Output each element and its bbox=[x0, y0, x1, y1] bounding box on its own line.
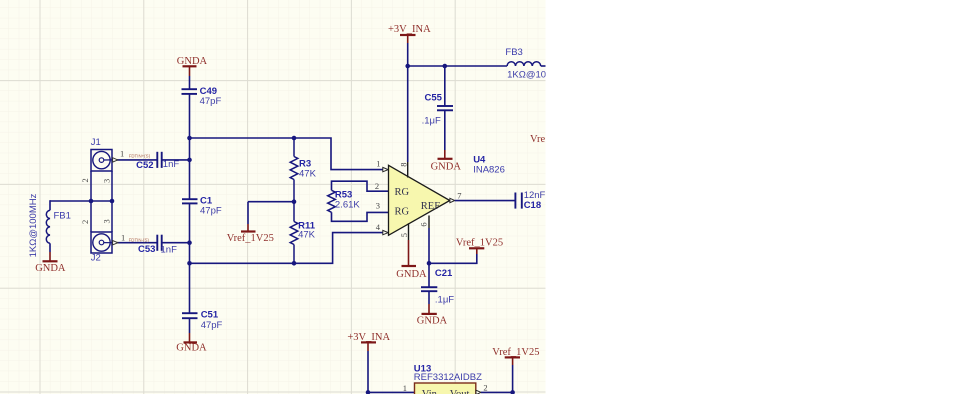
svg-text:FB1: FB1 bbox=[54, 210, 71, 221]
wire C55 to GNDA bbox=[444, 110, 446, 150]
svg-text:GNDA: GNDA bbox=[35, 263, 66, 274]
svg-text:3: 3 bbox=[101, 219, 111, 223]
wire shield rail bbox=[50, 200, 112, 202]
capacitor C52 1nF bbox=[136, 152, 179, 171]
input designator arrow pin4 bbox=[383, 230, 388, 234]
power port GNDA (below C21) bbox=[417, 304, 448, 326]
input designator arrow pin1 bbox=[383, 167, 388, 171]
junction (189.5,159.9) bbox=[187, 158, 192, 163]
wire +3V to U13 pin1 bbox=[368, 351, 415, 392]
pin-1 input designator arrow J2 bbox=[113, 241, 118, 245]
power port +3V_INA (top) bbox=[388, 24, 431, 43]
capacitor C53 1nF bbox=[138, 235, 177, 256]
svg-text:2: 2 bbox=[375, 181, 379, 191]
J2 pin1 wire to C53 bbox=[112, 242, 157, 244]
sheet background bbox=[0, 0, 546, 394]
capacitor C1 47pF bbox=[182, 196, 222, 217]
svg-text:47pF: 47pF bbox=[200, 205, 222, 216]
svg-text:FDTIN-(S): FDTIN-(S) bbox=[129, 238, 150, 243]
capacitor C49 47pF bbox=[182, 86, 222, 107]
capacitor C18 12nF bbox=[515, 190, 545, 211]
wire C51 to GNDA bbox=[189, 318, 191, 333]
svg-text:1: 1 bbox=[121, 233, 125, 243]
svg-text:6: 6 bbox=[419, 222, 429, 226]
svg-text:3: 3 bbox=[101, 179, 111, 183]
wire bus C49 to C1 bbox=[189, 94, 191, 199]
svg-text:GNDA: GNDA bbox=[417, 315, 448, 326]
junction (189.5,242.7) bbox=[187, 240, 192, 245]
wire up to Vref port bbox=[512, 365, 514, 392]
wire down to Vref port bbox=[247, 202, 249, 224]
wire FB1 to GNDA bbox=[49, 243, 51, 252]
svg-text:C55: C55 bbox=[425, 93, 443, 104]
wire GNDA to C49 bbox=[189, 76, 191, 89]
svg-text:47pF: 47pF bbox=[200, 96, 222, 107]
svg-text:J2: J2 bbox=[91, 252, 101, 263]
junction (294,201.7) bbox=[292, 199, 297, 204]
power port GNDA (below pin5) bbox=[396, 240, 427, 280]
svg-text:C51: C51 bbox=[201, 310, 219, 321]
junction (429,263.3) bbox=[427, 261, 432, 266]
svg-text:1nF: 1nF bbox=[163, 159, 180, 170]
regulator U13 REF3312AIDBZ bbox=[414, 363, 482, 394]
wire bottom net to op-amp pin4 bbox=[190, 233, 383, 264]
junction (189.5,138) bbox=[187, 136, 192, 141]
svg-text:.1μF: .1μF bbox=[422, 115, 441, 126]
junction (91,201) bbox=[89, 199, 94, 204]
svg-text:RG: RG bbox=[395, 206, 410, 217]
wire rail to FB1 bbox=[49, 200, 51, 210]
power port +3V_INA (bottom) bbox=[347, 332, 390, 351]
capacitor C55 .1uF bbox=[422, 66, 453, 126]
svg-text:3: 3 bbox=[376, 200, 380, 210]
wire bus C1 to C51 bbox=[189, 203, 191, 313]
svg-text:+3V_INA: +3V_INA bbox=[388, 24, 431, 35]
svg-text:1: 1 bbox=[403, 383, 407, 393]
svg-text:4: 4 bbox=[376, 222, 381, 232]
wire mid net bbox=[248, 201, 294, 203]
power port GNDA (below C51) bbox=[176, 333, 207, 353]
ferrite bead FB1 1KOhm@100MHz bbox=[28, 193, 71, 257]
power port GNDA (below C55) bbox=[431, 150, 462, 172]
svg-text:.1μF: .1μF bbox=[435, 294, 454, 305]
pin 8 stub bbox=[407, 162, 409, 178]
junction (407.7,66) bbox=[405, 64, 410, 69]
svg-text:2: 2 bbox=[80, 220, 90, 224]
svg-text:7: 7 bbox=[457, 190, 461, 200]
pin 6 stub bbox=[428, 216, 430, 229]
svg-text:C53: C53 bbox=[138, 244, 155, 255]
svg-text:5: 5 bbox=[399, 233, 409, 237]
major grid bbox=[0, 0, 546, 394]
wire top net to op-amp pin1 bbox=[190, 138, 383, 170]
svg-text:47K: 47K bbox=[299, 168, 317, 179]
svg-text:FB3: FB3 bbox=[505, 47, 522, 58]
svg-text:1: 1 bbox=[120, 149, 124, 159]
output designator arrow pin7 bbox=[450, 198, 455, 202]
power port Vref_1V25 (bottom) bbox=[492, 347, 539, 365]
junction (189.5,263.3) bbox=[187, 261, 192, 266]
connector J2 bbox=[80, 219, 112, 263]
svg-text:1: 1 bbox=[376, 159, 380, 169]
svg-text:Vref_1V25: Vref_1V25 bbox=[227, 233, 274, 244]
power port GNDA (below FB1) bbox=[35, 252, 66, 274]
svg-text:FDTIN+(S): FDTIN+(S) bbox=[129, 153, 151, 158]
svg-text:47K: 47K bbox=[298, 229, 316, 240]
resistor R11 47K bbox=[290, 202, 316, 264]
svg-text:GNDA: GNDA bbox=[177, 56, 208, 67]
svg-text:C52: C52 bbox=[136, 160, 153, 171]
J2 pin2/pin3 lines up to rail bbox=[90, 201, 92, 232]
ferrite bead FB3 1KOhm@100MHz bbox=[505, 47, 571, 80]
pin 5 stub bbox=[408, 223, 410, 240]
J1 pin2/pin3 lines down to rail bbox=[90, 171, 92, 201]
svg-text:GNDA: GNDA bbox=[431, 161, 462, 172]
J1 pin1 wire to C52 bbox=[112, 159, 157, 161]
svg-text:47pF: 47pF bbox=[201, 320, 223, 331]
svg-text:REF: REF bbox=[421, 201, 440, 212]
wire +3V rail bbox=[408, 65, 507, 67]
op-amp U4 INA826 bbox=[389, 155, 505, 236]
power port Vref_1V25 (mid) bbox=[227, 224, 274, 244]
svg-text:1KΩ@100MHz: 1KΩ@100MHz bbox=[28, 193, 39, 257]
svg-text:2: 2 bbox=[80, 178, 90, 182]
wire op-amp output to C18 bbox=[455, 200, 516, 202]
junction (112,201) bbox=[110, 199, 115, 204]
connector J1 bbox=[80, 137, 112, 183]
junction (512.6,392.4) bbox=[510, 390, 515, 394]
svg-text:J1: J1 bbox=[91, 137, 101, 148]
svg-text:INA826: INA826 bbox=[473, 164, 505, 175]
wire C52 to bus bbox=[162, 159, 190, 161]
wire pin6 down to C21 node bbox=[428, 228, 430, 287]
wire C53 to bus bbox=[162, 242, 190, 244]
resistor R3 47K bbox=[290, 138, 316, 202]
power port Vref_1V25 (REF) bbox=[456, 238, 503, 255]
junction (368,392.4) bbox=[366, 390, 371, 394]
svg-text:2.61K: 2.61K bbox=[335, 199, 360, 210]
svg-text:RG: RG bbox=[395, 187, 410, 198]
power port GNDA (top, above C49) bbox=[177, 56, 208, 76]
wire U13 pin2 to Vref bbox=[481, 391, 513, 393]
svg-text:2: 2 bbox=[483, 382, 487, 392]
wire +3V down to rail and pin8 bbox=[407, 43, 409, 162]
resistor R53 2.61K with gain brackets bbox=[328, 181, 389, 221]
wire C21 to GNDA bbox=[428, 291, 430, 304]
svg-text:C21: C21 bbox=[435, 268, 453, 279]
junction (294,263.3) bbox=[292, 261, 297, 266]
svg-text:GNDA: GNDA bbox=[396, 269, 427, 280]
svg-text:C18: C18 bbox=[524, 200, 541, 211]
output designator arrow U13 pin2 bbox=[476, 390, 481, 394]
wire REF node to Vref port bbox=[429, 254, 477, 263]
svg-text:Vref_1V25: Vref_1V25 bbox=[456, 238, 503, 249]
svg-text:GNDA: GNDA bbox=[176, 342, 207, 353]
svg-text:Vin: Vin bbox=[422, 389, 438, 394]
svg-text:Vref_1V25: Vref_1V25 bbox=[492, 347, 539, 358]
svg-text:1KΩ@100MHz: 1KΩ@100MHz bbox=[507, 69, 571, 80]
svg-text:Vout: Vout bbox=[450, 389, 470, 394]
junction (444.8,66) bbox=[443, 64, 448, 69]
pin-1 input designator arrow J1 bbox=[113, 158, 118, 162]
junction (294,138) bbox=[292, 136, 297, 141]
svg-text:Vref_1: Vref_1 bbox=[530, 134, 559, 145]
svg-text:REF3312AIDBZ: REF3312AIDBZ bbox=[414, 372, 482, 383]
capacitor C21 .1uF bbox=[421, 268, 454, 305]
svg-text:1nF: 1nF bbox=[161, 244, 178, 255]
capacitor C51 47pF bbox=[182, 310, 223, 331]
